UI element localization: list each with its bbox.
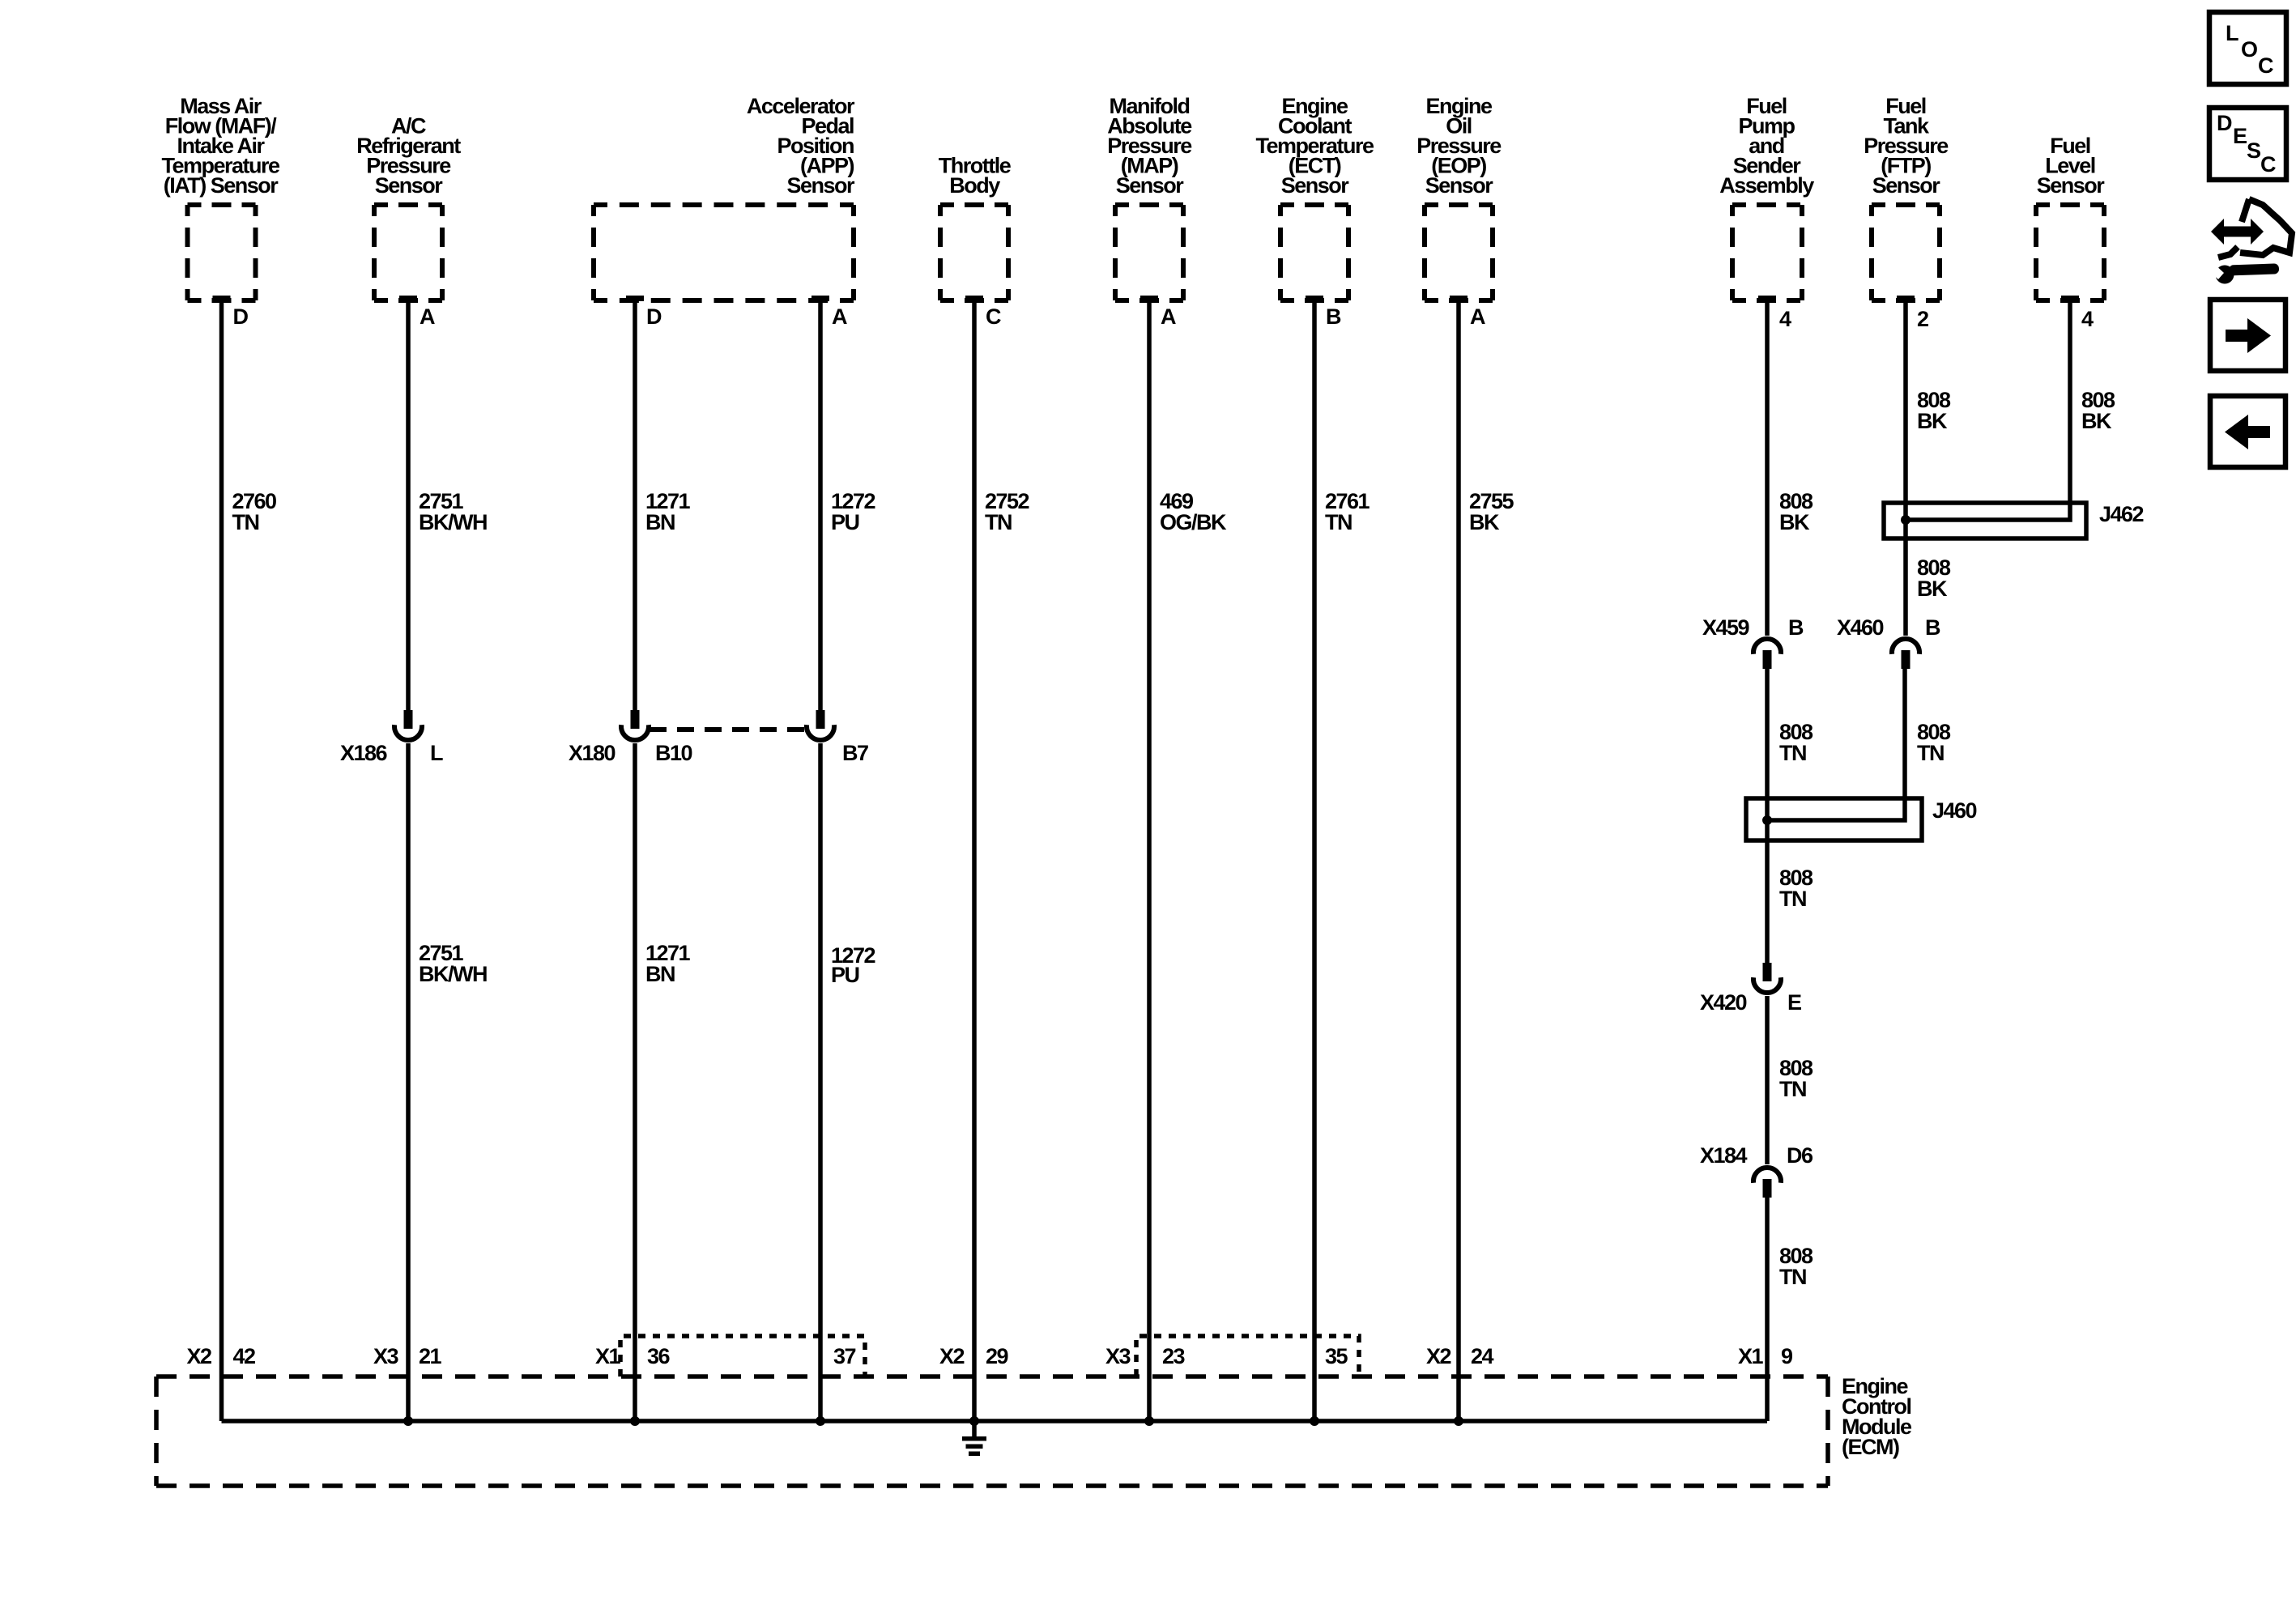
svg-text:36: 36 [647,1344,671,1368]
svg-text:Body: Body [949,173,1000,198]
svg-text:21: 21 [419,1344,442,1368]
wire 808 TN (X184 to ECM) [1765,1198,1770,1421]
junction J460 box [1746,798,1922,840]
wire 808 BK (J462 to X460) [1903,538,1908,636]
svg-text:X184: X184 [1700,1143,1748,1168]
svg-text:42: 42 [233,1344,256,1368]
ECM internal bus wire [222,1419,1768,1423]
svg-text:X2: X2 [1426,1344,1451,1368]
connector X184 pin D6 [1763,1179,1772,1198]
svg-text:BK: BK [1469,510,1500,534]
svg-text:23: 23 [1162,1344,1186,1368]
svg-text:OG/BK: OG/BK [1160,510,1227,534]
svg-text:X1: X1 [595,1344,621,1368]
svg-text:BK/WH: BK/WH [419,510,487,534]
svg-text:D: D [233,304,249,329]
svg-text:X2: X2 [939,1344,965,1368]
svg-text:X459: X459 [1702,615,1750,640]
svg-text:Sensor: Sensor [1281,173,1350,198]
svg-text:D: D [646,304,662,329]
svg-text:(IAT) Sensor: (IAT) Sensor [164,173,279,198]
svg-text:O: O [2241,37,2257,62]
wire 808 BK (fuel level to J462) [2068,300,2072,503]
svg-text:Sensor: Sensor [786,173,855,198]
sensor box A/C refrigerant pressure sensor [374,202,442,207]
svg-text:A: A [1161,304,1176,329]
svg-text:B10: B10 [655,741,692,765]
svg-text:X3: X3 [1105,1344,1131,1368]
connector X460 pin B [1902,650,1910,669]
wire 2751 BK/WH upper [406,300,411,710]
svg-text:BN: BN [645,510,675,534]
wire 1272 PU lower [818,743,823,1421]
wire 2761 TN [1312,300,1317,1421]
svg-text:X3: X3 [373,1344,399,1368]
wire 1271 BN upper [633,300,637,710]
sensor box MAF/IAT [188,202,256,207]
sensor box FTP sensor [1872,202,1940,207]
svg-text:9: 9 [1781,1344,1793,1368]
svg-text:BK: BK [1917,577,1948,601]
junction dot J462 [1901,515,1910,525]
svg-text:L: L [430,741,443,765]
wire 808 BK (fuel pump) [1765,300,1770,636]
svg-text:37: 37 [833,1344,856,1368]
svg-text:BN: BN [645,962,675,986]
wire 469 OG/BK [1147,300,1152,1421]
svg-text:2: 2 [1917,307,1928,331]
svg-text:A: A [420,304,435,329]
svg-text:X1: X1 [1738,1344,1764,1368]
svg-text:B: B [1925,615,1940,640]
svg-text:PU: PU [831,963,859,987]
back reference arrow box [2210,396,2285,467]
svg-text:Assembly: Assembly [1719,173,1814,198]
svg-text:4: 4 [1779,307,1791,331]
ground (inside ECM) [972,1421,977,1437]
svg-text:BK: BK [1917,409,1948,433]
svg-text:(ECM): (ECM) [1842,1435,1899,1459]
svg-text:C: C [986,304,1001,329]
svg-text:Sensor: Sensor [1872,173,1941,198]
svg-text:B: B [1788,615,1804,640]
svg-text:24: 24 [1471,1344,1494,1368]
svg-text:Sensor: Sensor [1116,173,1185,198]
svg-text:4: 4 [2081,307,2094,331]
svg-text:TN: TN [1325,510,1352,534]
sensor box APP sensor (wide) [594,202,854,207]
svg-text:Sensor: Sensor [2037,173,2106,198]
connector X459 pin B [1763,650,1772,669]
wire 808 TN (X420 to X184) [1765,996,1770,1164]
svg-text:35: 35 [1325,1344,1348,1368]
dotted box around pins 23-35 [1136,1336,1359,1377]
connector X180 pin B10 [631,710,640,729]
wire inside J462 (from fuel level leg) [1906,503,2070,520]
sensor box ECT sensor [1280,202,1348,207]
wire 2760 TN (MAF to ECM) [219,300,224,1421]
connector X420 pin E [1763,963,1772,981]
svg-text:29: 29 [986,1344,1009,1368]
wire 808 BK (FTP to J462) [1903,300,1908,503]
wire inside J460 (from X460 leg) [1767,798,1905,820]
svg-text:Sensor: Sensor [1425,173,1494,198]
svg-text:D6: D6 [1787,1143,1813,1168]
svg-text:X460: X460 [1837,615,1884,640]
wire through J462 [1903,503,1908,538]
wire through J460 down to X420 [1765,798,1770,964]
sensor box Fuel Level Sensor [2036,202,2104,207]
svg-text:BK/WH: BK/WH [419,962,487,986]
svg-text:B: B [1326,304,1341,329]
svg-text:TN: TN [1779,741,1806,765]
svg-text:J460: J460 [1932,798,1977,823]
dotted box around pins 36-37 [620,1336,865,1377]
ECM module dashed box [156,1374,1828,1379]
junction J462 box [1884,503,2086,538]
dashed link X180 B10-B7 [650,727,807,732]
DESC reference box [2209,108,2286,180]
svg-text:TN: TN [1917,741,1944,765]
svg-text:TN: TN [1779,1077,1806,1101]
svg-text:BK: BK [2081,409,2112,433]
svg-text:X186: X186 [340,741,388,765]
wire 2751 BK/WH lower [406,743,411,1421]
svg-text:BK: BK [1779,510,1810,534]
svg-text:TN: TN [232,510,259,534]
svg-text:L: L [2226,21,2238,45]
svg-text:C: C [2258,53,2273,78]
junction dot J460 [1762,815,1772,825]
wire 1271 BN lower [633,743,637,1421]
wire 2752 TN [972,300,977,1421]
svg-text:TN: TN [1779,887,1806,911]
sensor box Fuel Pump and Sender Assembly [1732,202,1802,207]
svg-text:X180: X180 [569,741,616,765]
sensor box EOP sensor [1425,202,1493,207]
svg-text:PU: PU [831,510,859,534]
LOC reference box [2209,12,2286,84]
svg-text:TN: TN [1779,1265,1806,1289]
connector X186 pin L [404,710,413,729]
svg-text:E: E [1787,990,1801,1015]
svg-text:X420: X420 [1700,990,1747,1015]
forward reference arrow box [2210,300,2285,371]
wire 1272 PU upper [818,300,823,710]
svg-text:Sensor: Sensor [375,173,444,198]
wire 2755 BK [1456,300,1461,1421]
svg-text:J462: J462 [2099,502,2144,526]
svg-text:B7: B7 [842,741,868,765]
diagnostic jump icon (double arrow, outline, wrench) [2209,199,2292,284]
svg-text:A: A [832,304,847,329]
wire 808 TN (X459 to J460) [1765,669,1770,798]
svg-text:E: E [2233,124,2247,148]
svg-text:C: C [2260,152,2276,177]
svg-text:S: S [2247,138,2260,163]
svg-text:A: A [1470,304,1485,329]
svg-text:TN: TN [985,510,1012,534]
connector X180 pin B7 [816,710,825,729]
sensor box Throttle Body [940,202,1008,207]
svg-text:D: D [2217,111,2232,135]
svg-text:X2: X2 [186,1344,211,1368]
sensor box MAP sensor [1115,202,1183,207]
wire 808 TN (X460 to J460) [1902,669,1907,798]
